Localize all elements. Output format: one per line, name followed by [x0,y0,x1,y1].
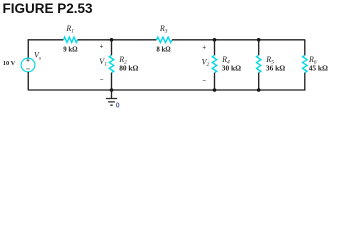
ground stub wire [111,90,113,98]
wire: R6 branch bottom lead [304,73,306,91]
svg-text:45 kΩ: 45 kΩ [309,64,328,73]
resistor R4 (30 k, vertical zigzag) [212,55,216,72]
svg-text:+: + [100,44,104,51]
node A junction dot (top of R2) [110,38,114,42]
svg-text:+: + [202,44,206,51]
resistor R5 (36 k, vertical zigzag) [257,55,261,72]
resistor R6 (45 k, vertical zigzag) [303,55,307,72]
wire: R6 branch top lead (right rail) [304,39,306,55]
svg-text:0: 0 [116,103,120,110]
wire: R4 branch bottom lead [214,73,216,90]
source plus mark [26,59,29,62]
ground symbol [106,99,117,106]
wire: left rail upper (corner down to source) [27,39,29,58]
node D junction dot (bottom of R2 / ground) [110,88,114,92]
node F junction dot (bottom of R5) [257,88,261,92]
svg-text:36 kΩ: 36 kΩ [266,64,285,73]
wire: top rail left segment (corner to R1) [28,39,64,41]
voltage source Vs (10 V, circle) [21,58,35,72]
node E junction dot (bottom of R4) [213,88,217,92]
wire: R4 branch top lead [214,40,216,56]
svg-text:−: − [202,78,206,85]
wire: left rail lower (source to bottom corner) [27,72,29,90]
wire: R2 branch top lead [111,40,113,56]
svg-text:80 kΩ: 80 kΩ [119,64,138,73]
resistor R3 (8 k, horizontal zigzag) [157,37,172,42]
source minus mark [26,68,29,70]
svg-text:−: − [100,77,104,84]
svg-text:9 kΩ: 9 kΩ [63,46,78,53]
resistor R2 (80 k, vertical zigzag) [109,55,113,72]
node C junction dot (top of R5) [257,38,261,42]
svg-text:10 V: 10 V [3,60,16,67]
wire: bottom rail [28,89,305,91]
wire: top rail R1 to R3 [78,39,157,41]
svg-text:8 kΩ: 8 kΩ [156,46,171,53]
wire: R5 branch bottom lead [258,73,260,90]
node B junction dot (top of R4) [213,38,217,42]
wire: R5 branch top lead [258,40,260,56]
resistor R1 (9 k, horizontal zigzag) [64,37,78,42]
wire: top rail R3 to right corner [172,39,305,41]
wire: R2 branch bottom lead [111,73,113,90]
svg-text:30 kΩ: 30 kΩ [222,64,241,73]
svg-text:FIGURE P2.53: FIGURE P2.53 [3,1,94,16]
